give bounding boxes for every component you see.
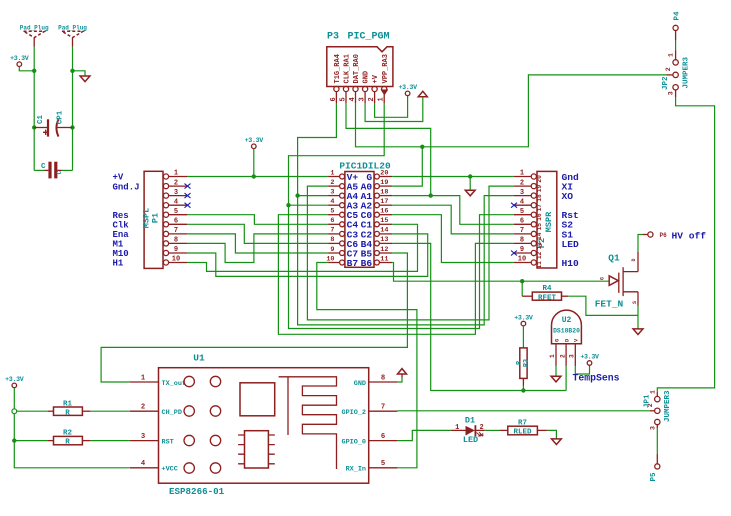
wire net GND : PIC pin20 to P2 pin1 [392, 176, 514, 178]
junction gate/RFET [520, 279, 524, 283]
junction pad2/gnd [70, 69, 74, 73]
junction R3/data line [521, 388, 525, 392]
IC U2 DS18B20 temperature sensor [552, 325, 582, 344]
svg-text:13: 13 [380, 236, 388, 244]
P1 pin 2 no-connect mark [185, 184, 191, 189]
svg-text:4: 4 [141, 460, 146, 468]
svg-text:Ena: Ena [113, 230, 130, 240]
U1 pin 4 (+VCC) [130, 467, 159, 469]
P2 pin 7 [531, 231, 536, 236]
svg-text:GND: GND [363, 71, 371, 84]
svg-text:4: 4 [349, 97, 357, 101]
P1 pin 6 [163, 222, 168, 227]
svg-text:U1: U1 [193, 353, 205, 364]
svg-text:1: 1 [520, 170, 524, 178]
svg-text:5: 5 [339, 97, 347, 101]
wire net M1 : P1 pin8 to PIC C3 [187, 234, 328, 263]
svg-text:Pad_Plug: Pad_Plug [58, 24, 87, 31]
wire net DAT_RA0 : P3 pin4 to PIC A1 and JP2 pin2 [356, 75, 667, 147]
svg-text:+3.3V: +3.3V [5, 376, 24, 383]
wire JP2 pin3 to JP1 pin1 (right edge) [657, 98, 714, 392]
svg-text:PIC_PGM: PIC_PGM [347, 32, 389, 43]
svg-text:+VCC: +VCC [162, 466, 178, 474]
svg-text:+3.3V: +3.3V [10, 55, 29, 62]
supply +3.3V (U2) [587, 361, 592, 366]
svg-text:9: 9 [174, 246, 178, 254]
svg-text:T1G_RA4: T1G_RA4 [334, 54, 342, 83]
D1 light arrows [477, 432, 484, 436]
wire net CLK_RA1 : P3 pin5 to PIC A0 and P2 S2 [346, 103, 431, 196]
svg-text:6: 6 [174, 218, 178, 226]
svg-text:4: 4 [520, 198, 524, 206]
P1 pin 3 [163, 193, 168, 198]
svg-text:P5: P5 [650, 472, 658, 482]
capacitor C (bottom of left block) [34, 169, 44, 171]
ground arrow symbol (U1 GND) [398, 369, 407, 374]
svg-text:3: 3 [141, 433, 145, 441]
svg-text:+3.3V: +3.3V [398, 84, 417, 91]
wire net B7/RX : PIC pin10 to ESP RX_In [317, 263, 417, 468]
svg-text:9: 9 [520, 246, 524, 254]
PIC pin 18 (A1) [374, 193, 379, 198]
PIC pin 1 (V+) [340, 174, 345, 179]
wire U2 pin3 to +3.3V [575, 365, 589, 374]
supply +3.3V (at P3) [405, 91, 410, 96]
svg-text:GPIO_0: GPIO_0 [342, 438, 366, 446]
P1 pin 3 no-connect mark [185, 193, 191, 198]
wire pad2 vertical rail [72, 47, 74, 171]
svg-text:12: 12 [380, 246, 388, 254]
resistor R7 (RLED) [500, 429, 508, 431]
svg-text:3: 3 [668, 91, 675, 95]
svg-text:20: 20 [380, 169, 388, 177]
P2 pin 9 [531, 250, 536, 255]
svg-text:TempSens: TempSens [573, 372, 620, 383]
wire pad1 vertical rail [33, 47, 35, 171]
junction (open) rail/R1 [12, 409, 17, 414]
P1 pin 8 [163, 241, 168, 246]
svg-text:16: 16 [536, 213, 543, 221]
svg-text:8: 8 [381, 374, 385, 382]
svg-text:7: 7 [330, 227, 334, 235]
svg-text:3: 3 [359, 97, 367, 101]
wire net A2/S1 : PIC pin17 to P2 S1 [392, 205, 514, 234]
junction gnd row [468, 174, 472, 178]
svg-text:R: R [65, 439, 70, 447]
svg-text:P4: P4 [674, 11, 682, 21]
PIC pin 7 (C3) [340, 231, 345, 236]
svg-text:2: 2 [368, 97, 376, 101]
wire D1 to R7 [485, 429, 500, 431]
svg-text:XO: XO [562, 191, 574, 202]
svg-text:R3: R3 [523, 359, 531, 367]
PIC pin 10 (B7) [340, 260, 345, 265]
svg-text:2: 2 [330, 179, 334, 187]
svg-text:B7: B7 [347, 258, 359, 269]
svg-text:1: 1 [650, 390, 657, 394]
svg-text:JP1: JP1 [643, 394, 651, 408]
wire +3.3V to V+ row [253, 149, 255, 177]
P2 pin 6 [531, 222, 536, 227]
P2 pin 5 [531, 212, 536, 217]
supply +3.3V (above PIC pin1 row) [252, 144, 257, 149]
svg-text:R4: R4 [542, 285, 552, 293]
U1 pin 6 (GPIO_0) [369, 440, 398, 442]
wire U2 pin2 to data line [565, 366, 567, 390]
junction DAT/A1 [420, 145, 424, 149]
svg-text:V: V [574, 338, 580, 342]
svg-text:+V: +V [372, 74, 380, 83]
jumper JP2 (JUMPER3) [675, 50, 677, 60]
svg-text:2: 2 [559, 354, 566, 358]
svg-text:6: 6 [330, 97, 338, 101]
svg-text:3: 3 [330, 188, 334, 196]
svg-text:8: 8 [174, 237, 178, 245]
connector P1 MSPL box [144, 171, 163, 268]
PIC pin 6 (C4) [340, 222, 345, 227]
wire net VPP_RA3 : P3 pin1 to PIC A3 and P2 Rst [289, 103, 385, 205]
wire rail to R1 [14, 410, 48, 412]
svg-text:9: 9 [330, 246, 334, 254]
capacitor C1/CP1 (polarized) [34, 127, 48, 129]
svg-text:G: G [600, 277, 606, 280]
IC U1 ESP8266-01 module box [159, 368, 369, 484]
svg-text:1: 1 [141, 374, 146, 382]
svg-text:1: 1 [330, 169, 334, 177]
wire P3 pin3 GND to ground arrow [365, 97, 423, 122]
wire Q1 source to ground [637, 306, 639, 329]
svg-text:2: 2 [665, 67, 672, 71]
P1 pin 2 [163, 184, 168, 189]
svg-text:H1: H1 [113, 259, 124, 269]
svg-text:18: 18 [380, 188, 388, 196]
junction pad1/C1 [32, 125, 36, 129]
svg-text:RX_In: RX_In [346, 466, 366, 474]
svg-text:P1: P1 [151, 213, 161, 223]
PIC pin 11 (B6) [374, 260, 379, 265]
P2 pin 4 no-connect mark [511, 203, 517, 208]
svg-text:+V: +V [113, 173, 124, 183]
U1 pin 3 (RST) [130, 440, 159, 442]
PIC pin 13 (B4) [374, 241, 379, 246]
ground arrow symbol (at P3) [418, 91, 427, 96]
P1 pin 10 [163, 260, 168, 265]
U1 module antenna [279, 377, 337, 469]
svg-text:19: 19 [380, 179, 388, 187]
wire net GPIO_2 : U1 to JP1 pin2 [397, 410, 650, 412]
svg-text:12: 12 [536, 251, 543, 259]
connector P3 PIC_PGM box [327, 47, 393, 87]
svg-text:CH_PD: CH_PD [162, 409, 182, 417]
svg-text:CP1: CP1 [57, 110, 65, 124]
svg-text:8: 8 [520, 237, 524, 245]
junction A3 row [286, 203, 290, 207]
svg-text:15: 15 [380, 217, 388, 225]
wire net Ena : P1 pin7 to PIC C7 [187, 234, 328, 253]
supply +3.3V (left block) [17, 62, 22, 67]
resistor R2 [48, 440, 54, 442]
svg-text:2: 2 [479, 424, 483, 432]
PIC pin 5 (C5) [340, 212, 345, 217]
wire U1 GND to arrow [397, 378, 402, 383]
wire net C5/LED : PIC pin5 to P2 LED [278, 215, 514, 335]
P2 pin 1 [531, 174, 536, 179]
PIC pin 3 (A4) [340, 193, 345, 198]
svg-text:Pad_Plug: Pad_Plug [20, 24, 49, 31]
svg-text:D: D [565, 338, 571, 342]
svg-text:LED: LED [463, 435, 478, 445]
wire net GPIO_0 to LED [397, 430, 450, 440]
svg-text:1: 1 [174, 170, 178, 178]
PIC pin 2 (A5) [340, 184, 345, 189]
svg-text:20: 20 [536, 175, 543, 183]
P2 pin 10 [531, 260, 536, 265]
svg-text:4: 4 [174, 198, 178, 206]
svg-text:JUMPER3: JUMPER3 [683, 56, 691, 88]
wire gnd stub [469, 177, 471, 191]
svg-text:3: 3 [569, 354, 576, 358]
svg-text:Q1: Q1 [608, 253, 620, 264]
P1 pin 4 no-connect mark [185, 203, 191, 208]
wire +3.3V rail to +VCC [14, 388, 130, 468]
svg-text:C: C [41, 163, 46, 171]
junction rail/R2 [12, 438, 16, 442]
svg-text:+3.3V: +3.3V [580, 354, 599, 361]
pin P6 (HV off) [648, 232, 653, 237]
U1 pin 5 (RX_In) [369, 467, 398, 469]
svg-text:13: 13 [536, 242, 543, 250]
PIC pin 8 (C6) [340, 241, 345, 246]
pin P4 [673, 25, 678, 30]
svg-text:DS18B20: DS18B20 [553, 328, 580, 335]
svg-text:6: 6 [330, 217, 334, 225]
resistor R3 (pullup) [521, 321, 526, 326]
P1 pin 1 [163, 174, 168, 179]
U1 pin 7 (GPIO_2) [369, 410, 398, 412]
PIC pin 16 (C0) [374, 212, 379, 217]
svg-text:16: 16 [380, 208, 388, 216]
U1 pin 8 (GND) [369, 381, 398, 383]
U1 module small IC [245, 431, 269, 468]
PIC pin 15 (C1) [374, 222, 379, 227]
P1 pin 9 [163, 250, 168, 255]
wire R2 to U1 RST [90, 440, 129, 442]
svg-text:1: 1 [455, 424, 459, 432]
P1 pin 4 [163, 203, 168, 208]
svg-text:2: 2 [174, 179, 178, 187]
P2 pin 4 [531, 203, 536, 208]
PIC pin 17 (A2) [374, 203, 379, 208]
svg-text:7: 7 [520, 227, 524, 235]
connector pad PAD2 (Pad_Plug) [62, 31, 83, 37]
svg-text:RFET: RFET [538, 294, 557, 302]
P2 pin 8 [531, 241, 536, 246]
PIC pin 19 (A0) [374, 184, 379, 189]
PIC pin 20 (G) [374, 174, 379, 179]
svg-text:6: 6 [520, 218, 524, 226]
svg-text:3: 3 [174, 189, 178, 197]
svg-text:Clk: Clk [113, 221, 130, 231]
ground symbol (Q1 source) [633, 329, 643, 335]
svg-text:FET_N: FET_N [595, 299, 624, 310]
svg-text:LED: LED [562, 239, 580, 250]
svg-text:18: 18 [536, 194, 543, 202]
svg-text:C1: C1 [37, 115, 45, 125]
svg-text:17: 17 [380, 198, 388, 206]
svg-text:M1: M1 [113, 240, 124, 250]
svg-text:JUMPER3: JUMPER3 [664, 390, 672, 422]
P2 pin 3 [531, 193, 536, 198]
svg-text:R2: R2 [63, 430, 73, 438]
svg-text:1: 1 [668, 53, 675, 57]
wire RFET to Q1 source net [568, 296, 638, 315]
wire net M10 : P1 pin9 to PIC C2 [187, 234, 428, 277]
wire P6 to Q1 drain [638, 235, 643, 253]
svg-text:3: 3 [520, 189, 524, 197]
PIC pin 12 (B5) [374, 251, 379, 256]
svg-text:8: 8 [330, 236, 334, 244]
ground symbol (U2) [551, 376, 561, 382]
svg-text:P6: P6 [660, 232, 668, 239]
wire R1 to U1 CH_PD [90, 410, 129, 412]
svg-text:R: R [65, 409, 70, 417]
svg-text:14: 14 [536, 232, 543, 240]
svg-text:1: 1 [378, 97, 386, 101]
wire JP1 pin3 to P5 [656, 429, 658, 454]
resistor R4 (RFET) [521, 281, 523, 296]
U1 pin 2 (CH_PD) [130, 410, 159, 412]
svg-text:19: 19 [536, 185, 543, 193]
wire net A5/XI : PIC pin2 to P2 XI [307, 186, 514, 320]
svg-text:ESP8266-01: ESP8266-01 [169, 486, 225, 497]
PIC pin 14 (C2) [374, 231, 379, 236]
svg-text:2: 2 [520, 179, 524, 187]
svg-text:D1: D1 [465, 415, 475, 425]
wire net +V : P1 pin1 to PIC pin1 [187, 176, 328, 178]
wire pad2 to ground [73, 71, 86, 76]
svg-text:VPP_RA3: VPP_RA3 [382, 54, 390, 83]
wire net C0/H10 : PIC pin16 to P2 H10 [392, 215, 514, 263]
svg-text:5: 5 [174, 208, 178, 216]
wire net T1G_RA4 : P3 pin6 to PIC A4 and P2 XO [298, 103, 337, 196]
wire net B5/TX : PIC pin12 to ESP TX_out [101, 253, 407, 382]
wire R7 to ground [547, 430, 557, 439]
ground symbol (gnd row) [465, 190, 475, 196]
ground symbol (pad2) [80, 76, 90, 82]
svg-text:2: 2 [141, 404, 145, 412]
svg-text:+3.3V: +3.3V [245, 137, 264, 144]
svg-text:7: 7 [174, 227, 178, 235]
junction pad2/CP1 [70, 125, 74, 129]
jumper JP1 (JUMPER3) [656, 392, 658, 396]
svg-text:R1: R1 [63, 400, 73, 408]
P2 pin 2 [531, 184, 536, 189]
pin P5 [655, 464, 660, 469]
wire net B6/GATE : PIC pin11 to Q1 gate [392, 263, 609, 282]
junction +V row [252, 174, 256, 178]
svg-text:5: 5 [520, 208, 524, 216]
svg-text:H10: H10 [562, 258, 580, 269]
svg-text:JP2: JP2 [662, 76, 670, 90]
svg-text:5: 5 [381, 460, 385, 468]
svg-text:Res: Res [113, 211, 129, 221]
wire net Res : P1 pin5 to PIC C4 [187, 215, 328, 225]
svg-text:RLED: RLED [513, 429, 532, 437]
PIC pin 4 (A3) [340, 203, 345, 208]
svg-text:R7: R7 [518, 419, 527, 427]
svg-text:1: 1 [549, 354, 556, 358]
svg-text:S: S [632, 301, 638, 304]
svg-text:P3: P3 [327, 32, 339, 43]
wire U2 pin1 to ground [555, 366, 557, 376]
svg-text:+3.3V: +3.3V [514, 314, 533, 321]
wire net H1 : P1 pin10 to PIC C1 [187, 224, 418, 271]
svg-text:3: 3 [650, 426, 657, 430]
wire P3 pin2 +V to +3.3V [375, 96, 408, 118]
svg-text:M10: M10 [113, 249, 129, 259]
svg-text:RST: RST [162, 438, 174, 446]
P1 pin 5 [163, 212, 168, 217]
PIC pin 9 (C7) [340, 251, 345, 256]
svg-text:5: 5 [330, 208, 334, 216]
svg-text:HV off: HV off [672, 230, 707, 241]
ground symbol (R7) [552, 439, 562, 445]
svg-text:17: 17 [536, 204, 543, 212]
connector pad PAD1 (Pad_Plug) [24, 31, 45, 37]
svg-text:D: D [631, 258, 637, 261]
connector P2 MSPR box [537, 171, 557, 268]
svg-text:11: 11 [380, 255, 388, 263]
P2 pin 9 no-connect mark [511, 251, 517, 256]
svg-text:G: G [554, 339, 560, 342]
U1 module pad circles [184, 376, 194, 386]
svg-text:MSPR: MSPR [544, 211, 554, 232]
svg-text:10: 10 [518, 256, 526, 264]
svg-text:4: 4 [330, 198, 334, 206]
svg-text:GPIO_2: GPIO_2 [342, 409, 366, 417]
P3 pin 1 marker [381, 90, 389, 96]
junction A4 row [295, 193, 299, 197]
svg-text:GND: GND [354, 380, 366, 388]
U1 module chip square [240, 383, 275, 416]
svg-text:10: 10 [172, 256, 180, 264]
wire rail to R2 [14, 440, 48, 442]
svg-text:U2: U2 [562, 316, 572, 325]
supply rail +3.3V (bottom left) [12, 383, 17, 388]
svg-text:7: 7 [381, 404, 385, 412]
svg-text:Gnd.J: Gnd.J [113, 182, 140, 192]
svg-text:15: 15 [536, 223, 543, 231]
wire P4 to JP2 pin1 [675, 41, 677, 51]
U1 pin 1 (TX_out) [130, 381, 159, 383]
svg-text:DAT_RA0: DAT_RA0 [353, 54, 361, 83]
resistor R1 [48, 410, 54, 412]
svg-text:B6: B6 [361, 258, 373, 269]
svg-text:11: 11 [536, 261, 543, 269]
junction pad1/+3.3V [32, 69, 36, 73]
P1 pin 7 [163, 231, 168, 236]
IC PIC1DIL20 box [345, 172, 374, 268]
svg-text:C: C [56, 170, 63, 174]
wire +3.3V to pad1 net [19, 67, 34, 71]
junction A0 row [429, 193, 433, 197]
svg-text:CLK_RA1: CLK_RA1 [344, 54, 352, 83]
svg-text:TX_out: TX_out [162, 380, 186, 388]
svg-text:14: 14 [380, 227, 388, 235]
wire net Clk : P1 pin6 to PIC C6 [187, 224, 328, 243]
svg-text:6: 6 [381, 433, 385, 441]
wire net B4/TEMP : PIC pin13 to U2 DQ [392, 243, 566, 390]
